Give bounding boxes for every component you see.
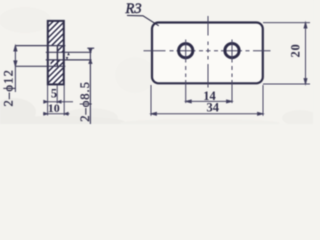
svg-text:2–ϕ8.5: 2–ϕ8.5 — [78, 81, 92, 122]
hatch upper region — [48, 21, 64, 46]
svg-text:2–ϕ12: 2–ϕ12 — [2, 69, 16, 107]
svg-text:34: 34 — [206, 101, 219, 115]
20 extension line bottom — [263, 83, 310, 85]
right hole vertical centerline / extension — [231, 40, 233, 104]
svg-text:20: 20 — [288, 43, 302, 57]
svg-text:R3: R3 — [125, 1, 142, 17]
phi8.5 hole edge lower + extension right — [46, 59, 92, 61]
phi8.5 inner arrowheads near section — [66, 52, 70, 60]
20 extension line top — [263, 22, 310, 24]
hatch lower region — [48, 66, 64, 84]
bottom dim extension line middle — [56, 85, 58, 104]
dim line 14 — [186, 100, 232, 103]
svg-text:5: 5 — [51, 87, 57, 101]
bottom dim extension line right — [63, 85, 65, 116]
hatch upper-right small region — [57, 46, 63, 53]
left hole vertical centerline / extension — [185, 40, 187, 104]
svg-text:10: 10 — [48, 101, 60, 115]
dim line 34 — [151, 112, 263, 115]
plate outline rounded rect — [152, 23, 263, 84]
phi8.5 hole edge upper + extension right — [46, 51, 92, 53]
dim line 5 — [44, 101, 73, 104]
counterbore step line — [56, 46, 58, 67]
phi12 dimension line — [14, 46, 17, 92]
horizontal centerline through holes — [144, 50, 271, 52]
bottom dim extension line left — [47, 85, 49, 116]
34 extension line right — [262, 85, 264, 116]
phi12 hole edge upper + extension left — [15, 45, 65, 47]
vertical plate centerline — [207, 16, 209, 88]
phi12 hole edge lower + extension left — [15, 65, 65, 67]
left hole — [179, 44, 193, 58]
section outline — [48, 21, 64, 85]
phi8.5 dimension line (long, outside arrows) — [87, 48, 94, 124]
dim line 10 — [43, 113, 70, 116]
34 extension line left — [150, 85, 152, 116]
right hole — [225, 44, 239, 58]
R3 leader line — [127, 15, 159, 25]
hatch lower-right small region — [51, 60, 64, 66]
dim line 20 — [304, 23, 307, 84]
